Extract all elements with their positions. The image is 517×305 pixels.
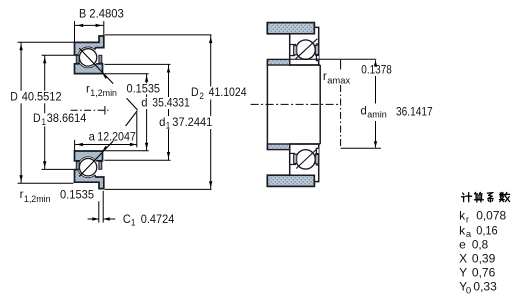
dim a extension right [136,113,138,148]
svg-text:0,33: 0,33 [473,280,497,294]
table header (hand-drawn CJK strokes) [463,193,464,195]
label d 35.4331 [140,97,195,109]
svg-text:38.6614: 38.6614 [47,111,87,125]
svg-text:0,39: 0,39 [472,251,496,265]
mounted bearing bottom (mirrored) [267,144,318,186]
svg-text:0.4724: 0.4724 [141,212,175,226]
shaft right end face [319,65,321,144]
svg-text:D: D [33,111,41,125]
svg-text:r: r [466,214,469,225]
contact line extension upper [127,98,138,110]
dim d1 line [168,65,170,160]
svg-text:d: d [159,115,165,129]
dim C1 extension left [98,201,100,222]
dim da extension top [291,58,377,60]
center axis right figure [251,103,341,105]
dim B extension left [74,21,76,42]
svg-text:1,2min: 1,2min [24,194,51,205]
svg-text:e: e [459,237,466,251]
dim d extension top [105,73,149,75]
svg-text:0.1535: 0.1535 [127,82,161,96]
dim da extension bottom [341,147,381,149]
extension connector tick above label [340,60,342,70]
dim d1 extension top [105,63,171,65]
svg-text:X: X [459,251,467,265]
svg-text:0.1378: 0.1378 [361,62,392,76]
dim D1 extension top [42,54,75,56]
svg-text:2.4803: 2.4803 [89,7,124,21]
dim B extension right [103,21,105,36]
shaft seat line top [290,64,321,66]
dim a line [75,144,136,146]
svg-text:0.1535: 0.1535 [60,187,94,201]
center axis left figure [71,109,109,111]
svg-text:35.4331: 35.4331 [152,96,190,110]
svg-text:0: 0 [466,285,471,296]
svg-text:1: 1 [131,218,136,229]
svg-text:0,76: 0,76 [472,265,496,279]
dim da line segments [375,60,377,64]
dim d1 extension bottom [105,159,171,161]
svg-text:40.5512: 40.5512 [22,89,62,103]
dim d line [146,74,148,151]
dim D2 line [210,35,212,189]
svg-text:d: d [361,103,367,117]
dim C1 arrow right [104,218,116,220]
svg-text:0,078: 0,078 [476,209,506,223]
dim C1 arrow left [88,218,99,220]
label D2 41.1024 [190,87,249,100]
mounted bearing top [267,23,318,65]
shaft seat line bottom [290,143,321,145]
label D1 38.6614 [32,113,88,126]
dim a extension left [74,140,76,151]
dim d extension bottom [105,150,149,152]
svg-text:D: D [10,89,18,103]
svg-text:amin: amin [367,110,387,121]
dim B line [75,24,104,26]
shaft left end face [266,59,268,149]
dim D1 line [44,55,46,169]
svg-text:d: d [141,96,147,110]
svg-text:0,8: 0,8 [472,237,489,251]
dim D extension bottom [18,182,74,184]
dim D2 extension bottom [105,188,212,190]
dim D line [20,42,22,183]
bearing section top [75,36,114,84]
svg-text:B: B [79,7,86,21]
svg-text:1,2min: 1,2min [90,88,117,99]
svg-text:37.2441: 37.2441 [172,115,212,129]
contact line extension lower [126,111,138,126]
svg-text:12.2047: 12.2047 [97,129,136,143]
svg-text:36.1417: 36.1417 [396,105,433,119]
label 0.1535 upper [125,83,162,94]
extension connector vertical (dash-dot) [340,85,342,148]
svg-text:C: C [123,212,131,226]
contact line mounted top [295,39,317,60]
svg-text:2: 2 [199,91,204,102]
label d1 37.2441 [158,116,217,129]
svg-text:41.1024: 41.1024 [209,85,247,99]
svg-text:1: 1 [42,117,47,128]
dim D2 extension top [105,34,212,36]
svg-text:amax: amax [327,76,350,87]
dim C1 extension right [102,191,104,223]
svg-text:D: D [191,85,199,99]
dim D extension top [18,41,74,43]
bearing section bottom (mirrored) [75,141,114,189]
svg-text:Y: Y [459,265,467,279]
axis tick [104,106,106,115]
contact line mounted bottom [296,149,317,169]
svg-text:0,16: 0,16 [476,223,498,237]
svg-text:1: 1 [166,121,171,132]
label D 40.5512 [9,91,64,104]
svg-text:a: a [89,129,96,143]
dim D1 extension bottom [42,168,75,170]
